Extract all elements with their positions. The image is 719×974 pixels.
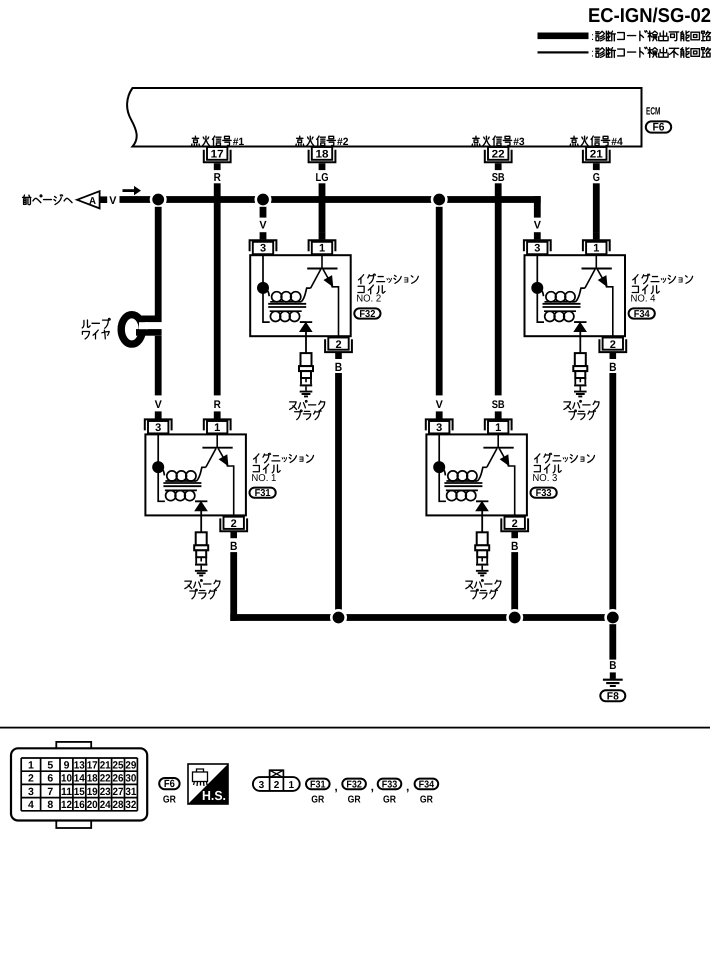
svg-text:LG: LG [316,172,329,184]
svg-text:20: 20 [87,799,98,811]
wire V to loop wire / coil NO.1 pin 3 [155,207,162,316]
ground symbol F8 [603,672,623,686]
svg-text:B: B [230,539,238,553]
spark plug for coil NO.4 [573,353,587,396]
coil NO.2 name label [358,275,363,284]
connector F31 oval [250,488,276,498]
svg-text:12: 12 [61,799,72,811]
F6 pin numbers [28,759,137,811]
svg-text:NO. 4: NO. 4 [631,294,656,305]
svg-text:1: 1 [319,243,325,255]
svg-text:2: 2 [274,780,280,791]
svg-text:27: 27 [113,786,124,798]
svg-text:#3: #3 [513,136,525,148]
legend: thick line = diagnosable circuit [538,33,589,40]
previous page label [23,195,31,205]
coil NO.1 name label [254,454,259,463]
svg-text:29: 29 [125,759,136,771]
svg-text:15: 15 [74,786,85,798]
svg-text:28: 28 [113,799,124,811]
transformer (primary+secondary windings) of coil NO.3 [439,434,487,501]
ECM pin 18 connector [309,147,336,170]
svg-text:22: 22 [100,773,111,785]
svg-text:F32: F32 [359,309,375,320]
wire V stub to coil NO.2 pin 3 [260,207,267,218]
svg-text:1: 1 [593,243,599,255]
svg-text:21: 21 [590,148,603,160]
svg-text:F33: F33 [536,488,552,499]
svg-text:F6: F6 [164,778,175,790]
svg-text:#2: #2 [337,136,349,148]
svg-text:GR: GR [420,795,434,806]
coil NO.1 pin 1 connector [204,411,231,434]
junction node inside coil NO.4 [531,282,543,294]
coil NO.4 name label [633,275,638,284]
svg-text:F34: F34 [419,779,435,790]
svg-text:ECM: ECM [646,106,661,118]
page reference arrow A (to previous page) [77,191,107,208]
connector F31 oval (bottom) with GR label [306,779,330,790]
diode of coil NO.2 [300,322,312,353]
power transistor of coil NO.2 [307,255,338,336]
svg-text:F31: F31 [310,779,326,790]
ECM pin 22 connector [485,147,512,170]
ECM pin 21 connector [583,147,610,170]
svg-text:V: V [259,220,267,232]
svg-text:32: 32 [125,799,136,811]
svg-text:GR: GR [383,795,397,806]
spark plug for coil NO.1 [194,532,208,575]
wire B from ground bus to body ground F8 [609,624,616,659]
ignition coil NO.1 (F31) box [145,434,246,515]
power transistor of coil NO.4 [582,255,613,336]
junction node inside coil NO.1 [152,461,164,473]
svg-text:F33: F33 [382,779,398,790]
svg-text:16: 16 [74,799,85,811]
svg-text:NO. 2: NO. 2 [356,294,381,305]
transformer (primary+secondary windings) of coil NO.4 [537,255,585,322]
wire B from coil NO.4 pin 2 to ground bus [609,373,616,614]
svg-text:F8: F8 [607,690,619,702]
svg-text:7: 7 [47,786,53,798]
svg-text:3: 3 [155,422,161,434]
svg-text:GR: GR [348,795,362,806]
svg-text:21: 21 [100,759,111,771]
coil NO.3 pin 3 connector [426,411,453,434]
ignition signal #3 label [472,136,480,146]
svg-text:V: V [436,399,444,411]
coil NO.4 pin 3 connector [524,232,551,255]
connector F32 oval [354,308,380,318]
svg-text:2: 2 [610,339,616,351]
svg-text:24: 24 [100,799,111,811]
svg-text:G: G [593,172,600,184]
svg-text:SB: SB [492,172,505,184]
svg-text:V: V [155,399,163,411]
svg-text:2: 2 [512,518,518,530]
svg-text:F31: F31 [255,488,271,499]
main V bus wire [120,196,541,203]
V bus corner drop to coil NO.4 [534,196,541,218]
power transistor of coil NO.1 [202,434,233,515]
svg-text:17: 17 [211,148,224,160]
svg-text:2: 2 [335,339,341,351]
ignition signal #4 label [570,136,578,146]
svg-text:17: 17 [87,759,98,771]
wire R from ECM pin 17 to coil NO.1 pin 1 [214,183,221,395]
svg-text:9: 9 [64,759,70,771]
svg-text:2: 2 [231,518,237,530]
ignition coil NO.4 (F34) box [525,255,626,336]
power transistor of coil NO.3 [483,434,514,515]
wire B from coil NO.1 pin 2 down to ground bus [230,552,237,621]
loop wire symbol [121,315,161,344]
svg-text:#1: #1 [233,136,245,148]
svg-text:1: 1 [495,422,501,434]
coil NO.3 pin 2 connector [501,517,528,539]
ground bus wire [230,614,613,621]
svg-text:3: 3 [259,780,265,791]
spark plug label (coil NO.3) [466,581,473,588]
spark plug for coil NO.3 [475,532,489,575]
ignition signal #2 label [296,136,304,146]
svg-text:1: 1 [28,759,34,771]
svg-text:3: 3 [436,422,442,434]
spark plug for coil NO.2 [299,353,313,396]
wire B from coil NO.2 pin 2 to ground bus [335,373,342,614]
wire SB from ECM pin 22 to coil NO.3 pin 1 [495,183,502,395]
junction node on V bus (to coil NO.1) [151,192,165,206]
svg-text:NO. 3: NO. 3 [532,473,557,484]
svg-text::: : [591,48,594,60]
svg-text:#4: #4 [611,136,623,148]
svg-text:23: 23 [100,786,111,798]
svg-text:,: , [334,780,337,794]
wire LG from ECM pin 18 to coil NO.2 pin 1 [319,183,326,232]
junction node inside coil NO.3 [433,461,445,473]
ignition coil NO.3 (F33) box [426,434,527,515]
svg-text:1: 1 [289,780,295,791]
svg-text:10: 10 [61,773,72,785]
ignition coil connector face (3-2-1) [253,770,300,791]
junction node ground bus / coil NO.3 [508,610,522,624]
diode of coil NO.4 [574,322,586,353]
coil NO.3 name label [535,454,540,463]
wire V below loop to coil NO.1 [155,336,162,396]
svg-text:NO. 1: NO. 1 [251,473,276,484]
coil NO.3 pin 1 connector [485,411,512,434]
svg-text:18: 18 [316,148,329,160]
svg-text:B: B [609,360,617,374]
transformer (primary+secondary windings) of coil NO.2 [263,255,311,322]
coil NO.4 pin 2 connector [599,338,626,360]
svg-text:26: 26 [113,773,124,785]
svg-text:V: V [109,195,117,207]
svg-text:B: B [335,360,343,374]
junction node ground bus / coil NO.4 [606,610,620,624]
svg-text:8: 8 [47,799,53,811]
coil NO.2 pin 1 connector [309,232,336,255]
svg-text:25: 25 [113,759,124,771]
svg-text:B: B [511,539,519,553]
svg-text:R: R [214,172,222,184]
svg-text:3: 3 [28,786,34,798]
ECM connector F6 oval [646,121,671,132]
H.S. (harness side) mark [188,764,228,804]
svg-text:,: , [406,780,409,794]
connector F33 oval (bottom) with GR label [378,779,402,790]
svg-text:F32: F32 [346,779,362,790]
loop wire label [82,320,90,328]
wire B from coil NO.3 pin 2 to ground bus [511,552,518,614]
flow direction arrow [123,186,142,195]
svg-text:GR: GR [163,795,177,806]
svg-text:30: 30 [125,773,136,785]
ECM pin 17 connector [204,147,231,170]
ECM connector F6 face view [11,742,147,828]
diode of coil NO.1 [195,501,207,532]
wire G from ECM pin 21 to coil NO.4 pin 1 [593,183,600,232]
svg-text:14: 14 [74,773,85,785]
spark plug label (coil NO.4) [564,402,571,409]
svg-text:18: 18 [87,773,98,785]
svg-text:4: 4 [28,799,34,811]
svg-text:3: 3 [534,243,540,255]
svg-text:1: 1 [214,422,220,434]
diode of coil NO.3 [476,501,488,532]
coil NO.1 pin 3 connector [145,411,172,434]
ECM box [127,88,641,147]
svg-text:EC-IGN/SG-02: EC-IGN/SG-02 [588,5,711,27]
coil NO.1 pin 2 connector [220,517,247,539]
svg-text:5: 5 [47,759,53,771]
coil NO.2 pin 3 connector [250,232,277,255]
separator line [0,727,710,729]
ignition coil NO.2 (F32) box [250,255,351,336]
junction node ground bus / coil NO.2 [331,610,345,624]
junction node on V bus (to coil NO.3) [432,192,446,206]
coil NO.2 pin 2 connector [325,338,352,360]
svg-text:22: 22 [492,148,505,160]
ignition signal #1 label [192,136,200,146]
svg-text:6: 6 [47,773,53,785]
connector F32 oval (bottom) with GR label [342,779,366,790]
svg-text:V: V [534,220,542,232]
svg-text:H.S.: H.S. [202,788,226,803]
coil NO.4 pin 1 connector [583,232,610,255]
svg-text:11: 11 [61,786,72,798]
svg-text:R: R [214,399,221,411]
connector F34 oval [629,308,655,318]
body ground connector F8 oval [600,690,625,701]
svg-text:F6: F6 [653,122,665,134]
svg-text:,: , [371,780,374,794]
connector F34 oval (bottom) with GR label [415,779,439,790]
svg-text:A: A [89,196,96,207]
svg-text::: : [591,31,594,43]
wire V from bus to coil NO.3 pin 3 [436,207,443,396]
svg-text:31: 31 [125,786,136,798]
svg-text:2: 2 [28,773,34,785]
svg-text:13: 13 [74,759,85,771]
svg-text:19: 19 [87,786,98,798]
transformer (primary+secondary windings) of coil NO.1 [158,434,206,501]
svg-text:F34: F34 [634,309,650,320]
legend: thin line = non-diagnosable circuit [538,51,589,53]
F6 pin grid [21,758,137,811]
junction node inside coil NO.2 [257,282,269,294]
spark plug label (coil NO.1) [185,581,192,588]
svg-text:SB: SB [492,399,505,411]
svg-text:3: 3 [260,243,266,255]
spark plug label (coil NO.2) [290,402,297,409]
junction node on V bus (to coil NO.2) [256,192,270,206]
connector F33 oval [531,488,557,498]
svg-text:GR: GR [311,795,325,806]
connector F6 oval (bottom) [159,778,179,789]
svg-text:B: B [609,660,616,672]
